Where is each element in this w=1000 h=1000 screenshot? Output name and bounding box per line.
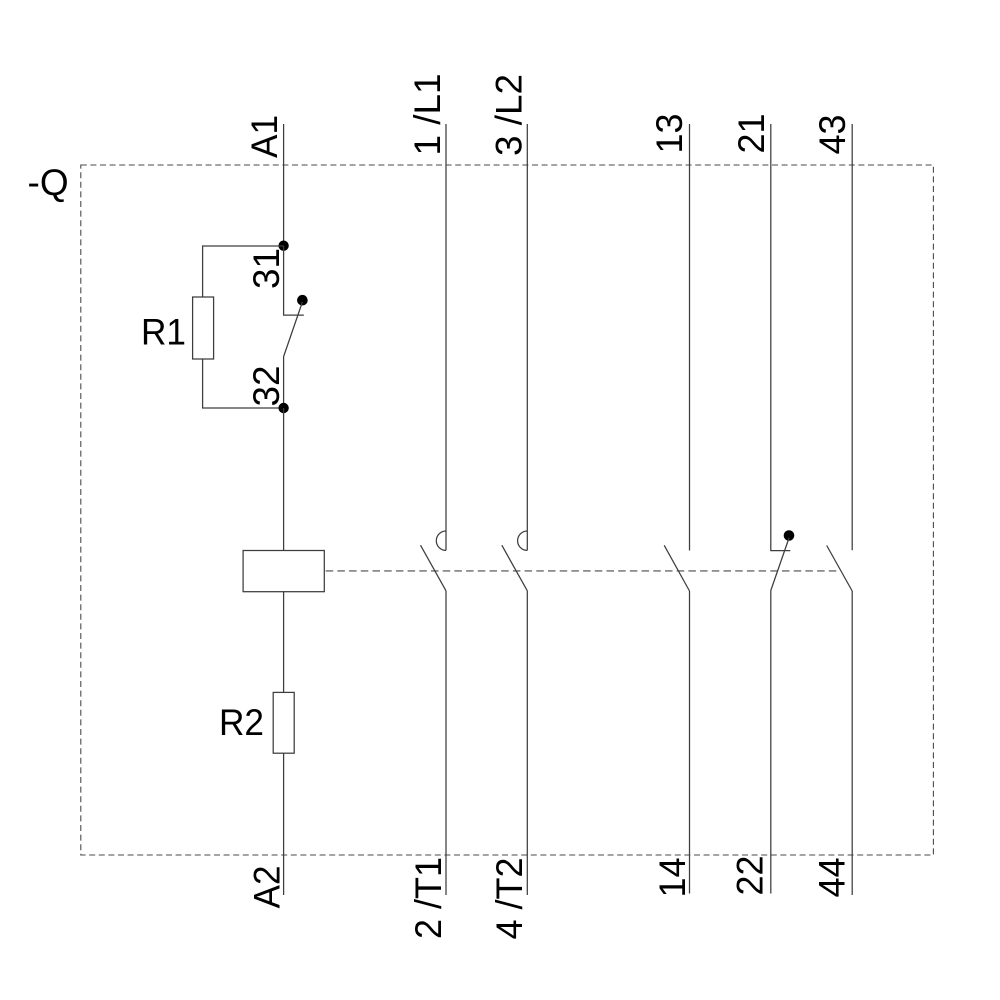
aux NO 13-14 upper lead [689,124,691,551]
aux 44 lower lead [851,591,853,895]
aux 22 lower lead [770,591,772,894]
pole 3/L2 contact arc [518,531,528,550]
svg-text:3 /L2: 3 /L2 [489,74,530,156]
svg-text:14: 14 [652,858,693,898]
svg-text:2 /T1: 2 /T1 [408,857,449,939]
enclosure -Q dashed boundary [81,165,934,855]
svg-text:21: 21 [731,114,772,154]
contact 31-32 moving arm [284,302,303,356]
aux NC 21-22 fixed terminal [771,124,791,551]
svg-text:R2: R2 [219,702,264,743]
pole 2/T1 lower lead [445,591,447,895]
pole 4/T2 lower lead [526,591,528,895]
svg-text:A1: A1 [244,115,285,158]
svg-text:R1: R1 [141,312,186,353]
contact 31-32 pivot dot [297,295,308,306]
aux 14 lower lead [689,591,691,894]
pole 3/L2 moving contact [502,545,528,591]
svg-text:43: 43 [812,115,853,155]
wire R2 to terminal A2 [283,753,285,895]
contact 31-32 fixed terminal [284,246,304,315]
wire R1 branch bottom [203,359,284,408]
svg-text:A2: A2 [247,866,288,909]
resistor R1 [193,297,214,359]
pole 1/L1 contact arc [436,531,446,550]
svg-text:32: 32 [246,366,287,407]
svg-text:13: 13 [649,114,690,154]
wire R1 branch top [203,246,284,297]
svg-text:4 /T2: 4 /T2 [489,858,530,940]
resistor R2 [273,692,294,753]
node junction R1 bottom [278,403,288,413]
aux NO 43-44 upper lead [851,124,853,550]
node junction A1/R1 top [278,241,288,251]
svg-text:44: 44 [812,858,853,898]
wire coil to R2 [283,592,285,693]
svg-text:22: 22 [730,856,771,896]
svg-text:1 /L1: 1 /L1 [407,74,448,156]
svg-text:-Q: -Q [28,162,69,203]
terminal A1 lead wire [283,124,285,246]
pole 1/L1 moving contact [421,545,447,591]
coil K (operating coil) [243,551,324,592]
aux NC 21-22 moving arm [771,538,789,591]
wire contact 32 to node [283,356,285,408]
aux NO 13-14 moving contact [664,545,689,591]
aux NC 21-22 pivot dot [784,530,795,541]
svg-text:31: 31 [246,248,287,289]
pole 1/L1-2/T1 upper lead [445,124,447,550]
mechanical linkage dashed [326,570,840,572]
pole 3/L2-4/T2 upper lead [526,124,528,550]
wire node to coil [283,408,285,551]
aux NO 43-44 moving contact [827,546,853,592]
